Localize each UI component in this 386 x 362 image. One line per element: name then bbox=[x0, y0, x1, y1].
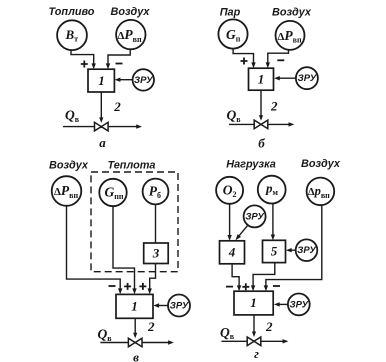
svg-text:Пар: Пар bbox=[220, 7, 241, 19]
svg-text:4: 4 bbox=[228, 245, 236, 260]
svg-text:Воздух: Воздух bbox=[111, 6, 151, 18]
svg-text:1: 1 bbox=[258, 72, 265, 87]
svg-text:в: в bbox=[133, 350, 139, 362]
svg-text:ЗРУ: ЗРУ bbox=[245, 211, 265, 222]
svg-text:3: 3 bbox=[152, 246, 160, 261]
svg-text:2: 2 bbox=[265, 319, 273, 334]
svg-text:1: 1 bbox=[250, 295, 257, 310]
svg-text:г: г bbox=[254, 346, 259, 361]
svg-text:ЗРУ: ЗРУ bbox=[297, 245, 317, 256]
svg-text:ЗРУ: ЗРУ bbox=[290, 299, 310, 310]
svg-text:2: 2 bbox=[270, 99, 278, 114]
svg-text:Теплота: Теплота bbox=[108, 159, 156, 171]
svg-text:ЗРУ: ЗРУ bbox=[134, 75, 154, 86]
svg-text:б: б bbox=[258, 136, 265, 151]
svg-text:2: 2 bbox=[113, 99, 121, 114]
svg-text:Нагрузка: Нагрузка bbox=[226, 158, 276, 170]
svg-text:ЗРУ: ЗРУ bbox=[170, 300, 190, 311]
svg-text:2: 2 bbox=[147, 319, 155, 334]
svg-text:Воздух: Воздух bbox=[301, 158, 341, 170]
svg-text:5: 5 bbox=[271, 244, 278, 259]
svg-text:1: 1 bbox=[131, 299, 138, 314]
svg-text:1: 1 bbox=[98, 73, 105, 88]
svg-text:Воздух: Воздух bbox=[272, 7, 312, 19]
svg-text:ЗРУ: ЗРУ bbox=[298, 73, 318, 84]
svg-text:Топливо: Топливо bbox=[49, 6, 95, 18]
svg-text:а: а bbox=[99, 135, 106, 150]
svg-text:Воздух: Воздух bbox=[49, 159, 89, 171]
